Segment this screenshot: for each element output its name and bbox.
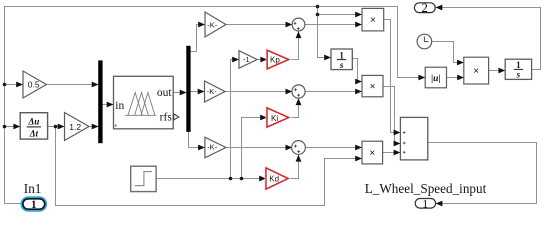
svg-text:×: × bbox=[370, 82, 376, 93]
svg-text:In1: In1 bbox=[24, 181, 42, 196]
svg-text:|u|: |u| bbox=[431, 74, 440, 84]
svg-text:1: 1 bbox=[422, 196, 428, 210]
svg-text:0.5: 0.5 bbox=[28, 80, 40, 90]
svg-text:-K-: -K- bbox=[207, 20, 218, 29]
svg-text:1: 1 bbox=[31, 199, 37, 211]
svg-text:×: × bbox=[369, 148, 375, 159]
svg-text:1: 1 bbox=[339, 50, 344, 60]
svg-text:in: in bbox=[115, 100, 124, 112]
svg-text:Δt: Δt bbox=[29, 129, 39, 139]
svg-text:Kp: Kp bbox=[270, 56, 280, 65]
svg-text:-1: -1 bbox=[243, 55, 250, 64]
svg-text:Ki: Ki bbox=[271, 114, 278, 123]
svg-text:out: out bbox=[157, 87, 173, 99]
svg-text:1: 1 bbox=[516, 60, 521, 70]
svg-text:×: × bbox=[370, 15, 376, 26]
svg-text:1.2: 1.2 bbox=[69, 122, 81, 132]
svg-text:rfs: rfs bbox=[160, 112, 173, 124]
svg-text:×: × bbox=[473, 66, 479, 77]
svg-text:2: 2 bbox=[421, 0, 428, 15]
svg-text:s: s bbox=[516, 70, 521, 80]
svg-text:Δu: Δu bbox=[27, 117, 39, 127]
svg-text:L_Wheel_Speed_input: L_Wheel_Speed_input bbox=[365, 181, 487, 196]
svg-text:Kd: Kd bbox=[269, 175, 279, 184]
svg-text:-K-: -K- bbox=[207, 87, 218, 96]
svg-text:s: s bbox=[339, 60, 344, 70]
svg-text:-K-: -K- bbox=[207, 143, 218, 152]
